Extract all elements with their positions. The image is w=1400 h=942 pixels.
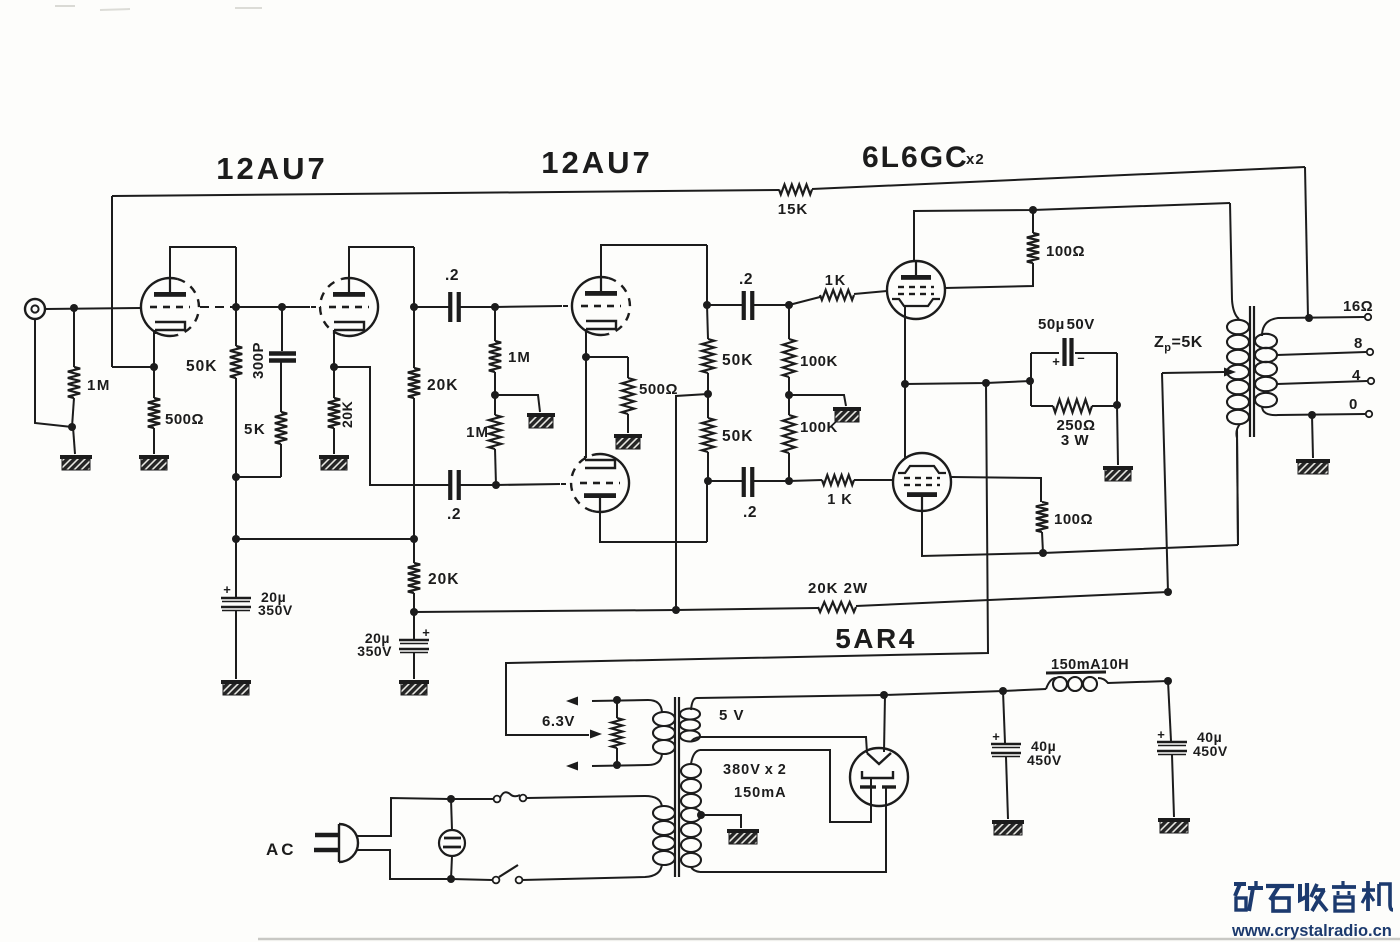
wire feedback rail left-to-15K (112, 190, 779, 196)
wire 4 tap (1277, 381, 1367, 384)
wire .2 out lower (753, 480, 789, 482)
power transformer core (674, 697, 676, 877)
wire 20K plate top (413, 307, 415, 368)
svg-text:0: 0 (1349, 396, 1358, 413)
svg-text:8: 8 (1354, 335, 1363, 352)
resistor 50K (upper) (702, 339, 714, 373)
wire x236 down (235, 477, 237, 598)
node upper output (703, 301, 711, 309)
wire 40u first top (1003, 691, 1005, 743)
node HV center tap (697, 811, 705, 819)
wire 1M lower bottom (495, 449, 496, 485)
wire feedback drop right (1305, 167, 1308, 318)
resistor 50K (V1a plate load) (230, 346, 242, 378)
resistor 1M (input) (68, 367, 80, 398)
input jack (25, 299, 45, 319)
wire B+ rail mid (676, 608, 818, 610)
wire V2b cathode up (585, 357, 587, 458)
ground (V1a cathode) (139, 455, 169, 470)
wire hum top (616, 700, 618, 718)
resistor 20K 2W (818, 602, 856, 612)
svg-text:50K: 50K (722, 352, 753, 369)
svg-text:20K: 20K (427, 377, 458, 394)
resistor 20K (V1b cathode) (328, 398, 340, 428)
node B+ rail / splitter feed (672, 606, 680, 614)
wire 8 tap (1277, 352, 1366, 355)
choke core bar (1046, 672, 1106, 673)
node bias box left joint (1026, 377, 1034, 385)
5AR4 plate 1 (862, 771, 893, 778)
node V2a grid line (491, 303, 499, 311)
arrow 6.3V top (566, 697, 578, 706)
wire to 1K lower (789, 480, 822, 481)
wire 100ohm lower bottom (1042, 532, 1043, 553)
wire 50K lower top (707, 394, 709, 418)
fuse terminals (494, 796, 501, 803)
node 50K/5K junction (232, 473, 240, 481)
wire 100K upper bot (788, 377, 790, 395)
wire 5V top curve (691, 698, 697, 710)
svg-text:3 W: 3 W (1061, 432, 1090, 449)
wire cathode rail (905, 381, 1031, 384)
wire feedback rail 15K-to-right (812, 167, 1305, 189)
node 0-tap ground junction (1308, 411, 1316, 419)
wire 1M upper top (494, 307, 496, 341)
node lamp bottom (447, 875, 455, 883)
svg-text:350V: 350V (258, 602, 293, 618)
wire B+ drop x414 (413, 539, 415, 563)
wire 100K lower bot (788, 453, 790, 481)
wire 20u first to gnd (235, 611, 237, 679)
svg-text:500Ω: 500Ω (165, 411, 204, 428)
wire 1M bottom (72, 398, 74, 427)
wire 50K bottom (235, 378, 237, 477)
wire center tap arrow line (1162, 372, 1224, 373)
svg-text:1M: 1M (508, 349, 531, 366)
wire cathode to 500ohm (586, 356, 628, 358)
svg-text:1M: 1M (466, 424, 489, 441)
resistor 250&#937; 3W (1053, 400, 1092, 413)
wire V1a grid dash-right (200, 306, 209, 308)
wire 40u first to gnd (1006, 757, 1008, 819)
svg-text:+: + (223, 582, 231, 597)
wire HV center tap (701, 815, 741, 828)
wire bias box top-left (1031, 352, 1059, 354)
output transformer core (1249, 306, 1251, 437)
ground (V1b cathode) (319, 455, 349, 470)
wire V2a plate drop (706, 245, 708, 305)
wire plug cord lower (356, 850, 449, 879)
wire 6L6 lower screen (951, 477, 1041, 502)
wire 0 tap to ground (1312, 415, 1313, 458)
AC plug body (338, 824, 340, 862)
wire lamp bottom lead (451, 856, 452, 879)
heater 6.3V winding (653, 712, 675, 726)
wire V1b plate up (349, 247, 414, 292)
node cathode rail b (982, 379, 990, 387)
resistor 50K (lower) (702, 418, 714, 452)
scan speck 3 (235, 7, 262, 9)
node choke input / 40u (999, 687, 1007, 695)
wire lamp top lead (451, 799, 452, 830)
wire bias box left side (1030, 353, 1032, 406)
wire HV bottom curve (691, 867, 700, 872)
wire V1a cathode (153, 332, 155, 367)
wire bias box bottom-left (1031, 405, 1053, 407)
wire to .2 upper right (708, 304, 743, 306)
svg-text:16Ω: 16Ω (1343, 298, 1373, 315)
wire V1a cath lead (153, 367, 155, 398)
node 1M center (491, 391, 499, 399)
wire 300P top lead (281, 307, 283, 351)
svg-text:12AU7: 12AU7 (216, 151, 328, 186)
capacitor .2 (lower coupling) (448, 470, 452, 500)
wire to fuse (451, 798, 493, 800)
wire hum bottom (616, 748, 618, 765)
wire 5V-top / B+ line (697, 689, 1046, 698)
wire 50K-5K bottom stub (236, 476, 281, 478)
wire 5K bottom (280, 444, 282, 477)
ground (secondary 0) (1296, 459, 1330, 474)
capacitor .2 (to upper 6L6) (742, 291, 746, 320)
power transformer primary winding (653, 806, 675, 820)
node lower plate junction (1039, 549, 1047, 557)
wire HV top to plate1 (700, 750, 871, 822)
fuse element (500, 792, 520, 798)
resistor 15K (feedback) (779, 185, 812, 195)
wire 20K to rail612 (413, 593, 415, 612)
wire to .2 cap upper (414, 306, 449, 308)
switch lever (499, 865, 518, 877)
wire V2b plate rise (706, 481, 708, 542)
svg-text:1M: 1M (87, 377, 111, 394)
wire fuse to primary (526, 797, 528, 799)
wire bias box right side (1116, 353, 1118, 406)
wire rail539 (236, 538, 414, 540)
capacitor 300P (269, 351, 296, 356)
svg-text:5 V: 5 V (719, 707, 745, 724)
wire B+ rail right (856, 592, 1168, 606)
scan speck 1 (55, 5, 75, 7)
wire 50K top segment (235, 247, 237, 346)
node V1a cathode junction (150, 363, 158, 371)
wire 500ohm splitter to gnd (627, 414, 629, 433)
output transformer primary winding (1227, 320, 1249, 334)
wire 6L6 lower plate line (922, 497, 1238, 556)
resistor 20K (decoupling) (408, 563, 420, 593)
wire jack sleeve down (35, 319, 72, 427)
node cathode rail a (901, 380, 909, 388)
resistor hum balance (612, 718, 623, 748)
wire 16 ohm tap (1262, 317, 1364, 336)
svg-text:.2: .2 (447, 506, 461, 523)
tube 5AR4 rectifier (850, 748, 908, 806)
wire jack to grid line (45, 308, 141, 309)
wire 50K center stub left (676, 394, 708, 610)
resistor 5K (275, 412, 287, 444)
wire 0 tap (1262, 406, 1365, 415)
wire V2a cathode (585, 331, 587, 357)
ground (1M center) (527, 413, 555, 428)
wire bias box top-right (1075, 352, 1117, 354)
wire .2 out upper (753, 304, 789, 306)
svg-text:380V x 2: 380V x 2 (723, 762, 787, 778)
wire 6L6 upper plate line (914, 203, 1230, 261)
svg-text:+: + (422, 625, 430, 640)
wire primary top lead (1230, 203, 1232, 300)
svg-text:6L6GC: 6L6GC (862, 141, 969, 174)
wire feedback to cathode (112, 366, 154, 368)
resistor 500&#937; (V1a cathode) (148, 398, 160, 428)
wire to switch (451, 879, 492, 880)
wire 20K plate bottom (413, 398, 415, 539)
5AR4 plate 2 (860, 785, 876, 788)
wire feedback left drop (111, 196, 113, 367)
node plate/100ohm junction (1029, 206, 1037, 214)
wire 1M mid (494, 372, 496, 395)
wire grid line V1a-V1b (236, 306, 310, 308)
node V1b cathode junction (330, 363, 338, 371)
ground (HV center tap) (727, 829, 759, 844)
wire V2a grid line (495, 306, 562, 307)
node choke output (1164, 677, 1172, 685)
wire 100ohm to screen (945, 263, 1033, 288)
wire 100ohm upper top (1032, 210, 1034, 233)
wire 20K to ground (333, 428, 335, 454)
node splitter cathode junction (582, 353, 590, 361)
tube V1b 12AU7 (second half) (342, 278, 379, 336)
heater center arrow (590, 730, 602, 739)
wire choke hump-in (1046, 678, 1056, 689)
svg-text:+: + (992, 729, 1000, 744)
5AR4 filament (867, 753, 891, 764)
svg-text:450V: 450V (1193, 743, 1228, 759)
tube V2b 12AU7 (phase splitter bottom, inverted) (593, 454, 630, 512)
svg-text:300P: 300P (250, 342, 267, 379)
resistor 1M (V2a grid) (489, 341, 501, 372)
node jack/1M junction (68, 423, 76, 431)
wire V2a plate up (601, 245, 707, 291)
wire to 1K upper (789, 297, 820, 305)
tube V1a 12AU7 (first half) (141, 278, 178, 336)
svg-text:AC: AC (266, 840, 297, 859)
capacitor 20&#181; 350V (first) (221, 597, 251, 600)
svg-text:+: + (1052, 354, 1060, 369)
svg-text:.2: .2 (739, 271, 753, 288)
svg-text:350V: 350V (357, 643, 392, 659)
resistor 100&#937; (lower screen) (1036, 502, 1048, 532)
wire V1a plate up (170, 247, 236, 292)
tube 6L6GC lower (inverted) (893, 453, 951, 511)
node V1b plate node (410, 303, 418, 311)
wire 40u second to gnd (1172, 755, 1174, 817)
node hum pot bottom (613, 761, 621, 769)
svg-text:20K: 20K (339, 401, 355, 428)
svg-text:.2: .2 (445, 267, 459, 284)
switch terminals (493, 877, 500, 884)
wire primary top lead (527, 796, 662, 807)
wire 50K upper top (707, 305, 708, 339)
svg-text:20K: 20K (428, 571, 459, 588)
wire 6.3V top lead (592, 700, 662, 712)
svg-text:50K: 50K (722, 428, 753, 445)
node input line (70, 304, 78, 312)
wire B+ rail left (414, 610, 676, 612)
svg-text:450V: 450V (1027, 752, 1062, 768)
node bias box corner (1113, 401, 1121, 409)
svg-text:5K: 5K (244, 421, 266, 438)
wire primary bottom lead (522, 864, 662, 880)
wire 1M lower mid (494, 395, 496, 415)
svg-text:12AU7: 12AU7 (541, 145, 653, 180)
ground (6L6 bias) (1103, 466, 1133, 481)
wire cathode ref drop (506, 383, 988, 735)
wire bias to ground (1117, 406, 1118, 465)
capacitor 20&#181; 350V (second) (399, 639, 429, 642)
svg-text:500Ω: 500Ω (639, 381, 678, 398)
resistor 1K (upper grid stopper) (820, 290, 854, 300)
node lower line junction (492, 481, 500, 489)
svg-text:100Ω: 100Ω (1046, 243, 1085, 260)
primary center tap arrow (1224, 368, 1236, 377)
wire choke hump-out (1098, 678, 1168, 683)
resistor 100K (upper grid leak) (783, 339, 795, 377)
wire 1M center to ground (495, 395, 540, 412)
svg-text:20K 2W: 20K 2W (808, 580, 868, 597)
wire HV bottom to plate2 (700, 788, 886, 872)
svg-text:100K: 100K (800, 353, 838, 370)
wire V1b cathode (333, 332, 335, 367)
wire filament right lead (884, 695, 885, 752)
svg-text:.2: .2 (743, 504, 757, 521)
capacitor .2 (upper coupling) (448, 292, 452, 322)
wire 6.3V bottom lead (592, 754, 662, 766)
pilot lamp (439, 830, 465, 856)
ground (splitter cathode) (614, 434, 642, 449)
capacitor 50&#181; 50V (1062, 338, 1066, 366)
wire 100K lower top (788, 395, 790, 415)
node 5AR4 filament tap (880, 691, 888, 699)
wire 100K center to gnd (789, 395, 846, 406)
ground (40u second) (1158, 818, 1190, 833)
wire 50K lower bot (707, 452, 709, 481)
svg-text:5AR4: 5AR4 (835, 623, 917, 654)
terminal 0 (1366, 411, 1372, 417)
wire 500ohm to ground (153, 428, 155, 454)
wire filament left lead (700, 737, 867, 753)
wire 50K upper bot (707, 373, 709, 394)
ground (input) (60, 455, 92, 470)
terminal 4 (1368, 378, 1374, 384)
capacitor 40&#181; 450V (second) (1157, 741, 1187, 744)
terminal 16 ohm (1365, 314, 1371, 320)
resistor 100K (lower grid leak) (783, 415, 795, 453)
wire choke out down (1168, 681, 1171, 741)
wire 300P to 5K (280, 362, 282, 412)
node 100K top (785, 301, 793, 309)
wire V2b plate down (600, 498, 707, 542)
svg-text:www.crystalradio.cn: www.crystalradio.cn (1231, 922, 1392, 940)
wire cathode branch right (334, 367, 449, 485)
wire primary bottom curve (1236, 424, 1240, 545)
svg-text:+: + (1157, 727, 1165, 742)
wire V2b grid line (496, 484, 560, 485)
node rail-612 left end (410, 608, 418, 616)
resistor 20K (V1b plate load) (408, 368, 420, 398)
node 100K bottom (785, 477, 793, 485)
resistor 500&#937; (splitter cathode) (622, 378, 634, 414)
svg-text:1 K: 1 K (827, 492, 853, 508)
capacitor .2 (to lower 6L6) (742, 467, 746, 497)
svg-text:100Ω: 100Ω (1054, 511, 1093, 528)
node 50K center (704, 390, 712, 398)
ground (100K center) (833, 407, 861, 422)
node rail-539 left (232, 535, 240, 543)
svg-text:4: 4 (1352, 367, 1361, 384)
watermark CJK logo (1234, 882, 1246, 886)
wire junction to ground (73, 427, 75, 454)
scanner edge line (258, 938, 1400, 941)
svg-text:15K: 15K (778, 201, 809, 218)
rectifier 5V winding (680, 709, 700, 720)
node rail-539 right (410, 535, 418, 543)
svg-text:100K: 100K (800, 419, 838, 436)
wire 20u second to gnd (413, 653, 415, 679)
wire 5V bottom curve (691, 737, 700, 742)
choke 150mA 10H (1053, 677, 1067, 691)
ground (20u first) (221, 680, 251, 695)
capacitor 40&#181; 450V (first) (991, 743, 1021, 746)
wire HV top curve (691, 750, 700, 764)
scan speck 2 (100, 9, 130, 10)
resistor 1M (V2b grid) (489, 415, 501, 449)
wire 20u second top (413, 612, 415, 640)
wire 1K lower to grid (854, 479, 893, 481)
wire 100K upper top (788, 305, 790, 339)
node plate/grid-line junction (232, 303, 240, 311)
node hum pot top (613, 696, 621, 704)
svg-text:150mA: 150mA (734, 785, 787, 801)
wire V1b plate drop (413, 247, 415, 307)
wire 6L6 upper cathode (904, 306, 906, 384)
ground (40u first) (992, 820, 1024, 835)
node B+ rail / choke junction (1164, 588, 1172, 596)
svg-text:x2: x2 (966, 151, 985, 168)
AC plug prongs (315, 833, 339, 838)
tube 6L6GC upper (887, 261, 945, 319)
ground (20u second) (399, 680, 429, 695)
node feedback takeoff (1305, 314, 1313, 322)
wire lower plate to primary (1237, 430, 1238, 545)
wire bias box bottom-right (1092, 405, 1117, 407)
wire .2 to 1M node (460, 306, 495, 308)
node lower output (704, 477, 712, 485)
wire V1b cath to res (333, 367, 335, 398)
resistor 1K (lower grid stopper) (822, 475, 854, 485)
svg-text:150mA10H: 150mA10H (1051, 657, 1129, 673)
svg-text:1K: 1K (825, 273, 848, 289)
node lamp top (447, 795, 455, 803)
node 100K center (785, 391, 793, 399)
HV 380Vx2 winding (681, 764, 701, 778)
wire 1M top (73, 308, 75, 367)
wire splitter 500ohm lead (627, 357, 629, 378)
tube V2a 12AU7 (phase splitter top) (572, 277, 609, 335)
wire plug cord upper (357, 798, 449, 836)
arrow 6.3V bottom (566, 762, 578, 771)
svg-text:50K: 50K (186, 358, 217, 375)
output transformer secondary winding (1255, 334, 1277, 348)
